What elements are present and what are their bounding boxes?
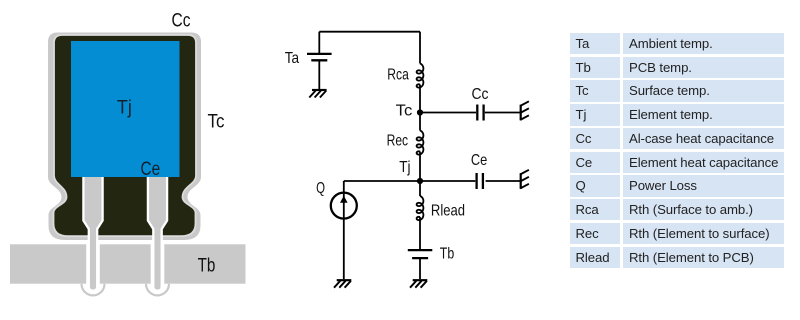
battery Tb (PCB temp source)	[408, 250, 433, 258]
wire: top horizontal from Ta to main branch	[319, 31, 420, 33]
capacitor sleeve (outer gray case outline)	[48, 33, 201, 241]
svg-text:Rec: Rec	[387, 133, 409, 150]
battery Ta (ambient temp source)	[307, 54, 332, 60]
wire: Tc node to Cc capacitor	[420, 112, 476, 114]
current source Q (power loss) circle	[331, 193, 357, 219]
wire: Tj node left to Q source and through to ground	[344, 181, 420, 279]
svg-text:Q: Q	[316, 180, 325, 197]
svg-text:Tc: Tc	[396, 103, 413, 120]
wire: main vertical top to Rca	[419, 32, 421, 64]
svg-text:Tj: Tj	[117, 97, 132, 119]
table row Ta	[570, 33, 784, 54]
capacitor dark aluminium can body	[54, 35, 197, 236]
wire: Tj node to Ce capacitor	[420, 180, 475, 182]
table row Rlead	[570, 247, 784, 268]
lead wire left	[83, 174, 102, 291]
svg-text:Ce: Ce	[471, 152, 487, 169]
wire: Ta branch vertical into battery	[318, 32, 320, 53]
table row Ce	[570, 152, 784, 173]
svg-text:Rca: Rca	[387, 67, 409, 84]
table row Rec	[570, 223, 784, 244]
solder hole rim right	[146, 284, 169, 296]
svg-text:Ta: Ta	[285, 50, 299, 67]
table row Tj	[570, 104, 784, 125]
table row Q	[570, 175, 784, 196]
wire: Tb battery to ground	[419, 258, 421, 279]
PCB hole clearance left	[86, 244, 100, 284]
table row Tc	[570, 80, 784, 101]
wire: battery Ta to ground	[318, 60, 320, 89]
node Tj	[417, 178, 423, 184]
resistor Rec (coil)	[417, 131, 424, 155]
svg-text:Cc: Cc	[172, 10, 191, 32]
svg-text:Cc: Cc	[472, 86, 489, 103]
wire: Rec to Tj node to Rlead	[419, 152, 421, 197]
capacitor Cc plates	[477, 105, 483, 121]
capacitor element (blue, Tj region)	[71, 41, 180, 177]
table row Cc	[570, 128, 784, 149]
legend table	[570, 33, 784, 270]
svg-text:Tb: Tb	[198, 255, 216, 277]
lead wire right	[148, 174, 167, 291]
wire: Rca to Tc node to Rec	[419, 85, 421, 131]
ground under Tb	[410, 280, 427, 288]
svg-text:Ce: Ce	[141, 158, 161, 180]
svg-text:Tb: Tb	[440, 246, 454, 263]
current source Q arrow head	[340, 196, 348, 203]
PCB hole clearance right	[151, 244, 165, 284]
wire: Cc capacitor to earth	[485, 112, 520, 114]
capacitor Ce plates	[477, 173, 483, 189]
table row Tb	[570, 57, 784, 78]
solder hole rim left	[82, 284, 105, 296]
svg-text:Tc: Tc	[208, 111, 225, 133]
earth symbol right of Cc	[520, 101, 529, 120]
resistor Rlead (coil)	[417, 196, 424, 220]
ground under Q	[334, 280, 351, 288]
svg-text:Tj: Tj	[399, 159, 410, 176]
ground under Ta	[309, 90, 326, 98]
wire: Rlead to Tb battery	[419, 217, 421, 249]
PCB board bar (Tb)	[10, 244, 246, 283]
node Tc	[417, 109, 423, 115]
table row Rca	[570, 199, 784, 220]
wire: Ce capacitor to earth	[486, 180, 520, 182]
resistor Rca (coil)	[417, 64, 424, 88]
earth symbol right of Ce	[520, 170, 529, 189]
svg-text:Rlead: Rlead	[431, 203, 465, 220]
